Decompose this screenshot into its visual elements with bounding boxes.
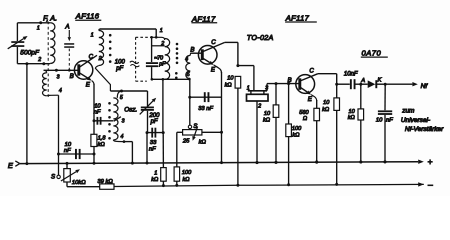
- svg-text:500pF: 500pF: [20, 49, 40, 56]
- svg-text:C: C: [211, 39, 216, 46]
- svg-text:pF: pF: [150, 119, 158, 125]
- svg-text:nF: nF: [94, 110, 101, 116]
- svg-text:E: E: [8, 161, 14, 170]
- svg-text:Ω: Ω: [303, 116, 308, 122]
- svg-text:1: 1: [37, 25, 40, 31]
- svg-text:3: 3: [57, 75, 60, 81]
- svg-text:2: 2: [37, 57, 41, 63]
- svg-text:2: 2: [257, 103, 261, 109]
- svg-text:kΩ: kΩ: [98, 142, 106, 148]
- svg-text:1,8: 1,8: [98, 136, 107, 142]
- svg-text:Osz.: Osz.: [124, 106, 137, 113]
- svg-text:E: E: [86, 82, 91, 89]
- svg-text:nF: nF: [386, 117, 393, 123]
- svg-text:4: 4: [59, 88, 62, 94]
- svg-text:1: 1: [160, 28, 163, 34]
- svg-text:10: 10: [376, 117, 383, 123]
- svg-text:25: 25: [182, 138, 190, 144]
- svg-text:0A70: 0A70: [362, 49, 382, 58]
- svg-text:10: 10: [349, 109, 356, 115]
- svg-text:kΩ: kΩ: [151, 177, 159, 183]
- svg-text:AF117: AF117: [191, 14, 216, 23]
- svg-text:nF: nF: [64, 148, 71, 154]
- svg-text:pF: pF: [158, 61, 166, 67]
- svg-text:E: E: [211, 67, 216, 74]
- svg-text:+: +: [428, 157, 433, 167]
- svg-text:10: 10: [94, 103, 101, 109]
- svg-text:Universal-: Universal-: [401, 117, 431, 124]
- svg-text:100: 100: [182, 170, 192, 176]
- svg-text:100: 100: [292, 126, 302, 132]
- svg-text:10: 10: [227, 76, 234, 82]
- svg-text:S: S: [51, 173, 56, 180]
- svg-text:A: A: [64, 24, 69, 31]
- svg-text:nF: nF: [149, 146, 156, 152]
- svg-text:kΩ: kΩ: [225, 82, 233, 88]
- svg-text:33 nF: 33 nF: [198, 106, 213, 112]
- svg-text:5: 5: [187, 72, 190, 78]
- svg-text:1: 1: [154, 171, 157, 177]
- svg-text:kΩ: kΩ: [322, 107, 330, 113]
- svg-text:3: 3: [122, 119, 125, 125]
- svg-text:E: E: [308, 96, 313, 103]
- svg-text:39 kΩ: 39 kΩ: [97, 179, 113, 185]
- svg-text:1: 1: [247, 86, 250, 92]
- svg-text:kΩ: kΩ: [183, 177, 191, 183]
- svg-text:kΩ: kΩ: [263, 118, 271, 124]
- svg-text:200: 200: [148, 113, 160, 119]
- svg-text:zum: zum: [401, 108, 415, 115]
- svg-text:4: 4: [185, 56, 188, 62]
- svg-text:10nF: 10nF: [344, 71, 358, 77]
- svg-text:10kΩ: 10kΩ: [72, 180, 86, 186]
- svg-text:B: B: [70, 73, 74, 80]
- svg-text:33: 33: [150, 140, 157, 146]
- svg-text:C: C: [89, 53, 94, 60]
- svg-text:kΩ: kΩ: [292, 133, 300, 139]
- svg-text:2: 2: [160, 41, 164, 47]
- svg-text:4: 4: [121, 134, 124, 140]
- svg-text:F, A.: F, A.: [43, 13, 57, 22]
- svg-text:A: A: [360, 78, 365, 84]
- svg-text:C: C: [309, 67, 314, 74]
- svg-text:pF: pF: [115, 66, 123, 72]
- svg-text:kΩ: kΩ: [348, 115, 356, 121]
- svg-text:K: K: [378, 77, 383, 83]
- svg-text:–: –: [428, 179, 433, 189]
- svg-text:5: 5: [120, 95, 123, 101]
- svg-text:10: 10: [264, 111, 271, 117]
- svg-text:10: 10: [323, 100, 330, 106]
- svg-text:100: 100: [115, 60, 126, 66]
- svg-text:1: 1: [91, 33, 94, 39]
- svg-text:AF117: AF117: [285, 14, 310, 23]
- svg-text:B: B: [190, 46, 194, 53]
- svg-text:kΩ: kΩ: [199, 139, 207, 145]
- svg-text:TO-02A: TO-02A: [247, 33, 274, 42]
- svg-text:AF116: AF116: [75, 11, 100, 20]
- svg-text:Nf: Nf: [421, 83, 429, 90]
- svg-text:B: B: [288, 77, 292, 84]
- svg-text:Nf-Verstärker: Nf-Verstärker: [405, 126, 444, 133]
